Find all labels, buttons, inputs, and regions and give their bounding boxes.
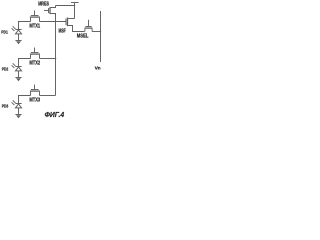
wire MTX3 drain to FD bus: [40, 95, 56, 97]
photodiode PD3: [12, 100, 22, 114]
wire column output line Vn: [100, 11, 102, 62]
svg-text:Vn: Vn: [95, 65, 101, 71]
wire MTX1 drain to MSF gate: [40, 21, 67, 23]
svg-text:MRES: MRES: [38, 1, 49, 7]
node VDD rail junction: [74, 5, 75, 6]
wire MTX2 drain to FD bus: [40, 58, 56, 60]
wire PD1 to MTX1 source: [19, 22, 31, 30]
transistor MSEL: [85, 20, 93, 32]
photodiode PD1: [12, 26, 22, 40]
wire PD2 to MTX2 source: [19, 59, 31, 67]
wire MSEL drain to column line: [92, 31, 100, 33]
wire top rail MRES drain to VDD: [56, 5, 75, 7]
node column junction: [100, 31, 101, 32]
wire PD3 to MTX3 source: [19, 96, 31, 104]
svg-text:PD3: PD3: [2, 104, 9, 109]
svg-text:MTX3: MTX3: [29, 98, 40, 104]
transistor MSF: [66, 18, 85, 32]
wire VDD node down to MSF drain: [74, 6, 76, 19]
svg-text:MSF: MSF: [59, 29, 66, 35]
ground PD3: [15, 115, 21, 119]
svg-text:PD1: PD1: [1, 30, 8, 35]
svg-text:MTX2: MTX2: [29, 61, 40, 67]
ground PD1: [15, 41, 21, 45]
ground PD2: [15, 78, 21, 82]
transistor MTX2: [30, 48, 40, 59]
transistor MTX3: [30, 85, 40, 96]
power VDD symbol: [71, 3, 79, 6]
svg-text:MSEL: MSEL: [77, 33, 89, 39]
node FD junction 2: [55, 58, 57, 60]
svg-text:PD2: PD2: [2, 67, 9, 72]
wire FD bus vertical: [55, 14, 57, 96]
transistor MTX1: [30, 11, 40, 22]
svg-text:MTX1: MTX1: [29, 24, 40, 30]
node FD junction 1: [55, 21, 57, 23]
transistor MRES: [44, 6, 56, 17]
svg-text:ФИГ.4: ФИГ.4: [45, 112, 65, 119]
photodiode PD2: [12, 63, 22, 77]
